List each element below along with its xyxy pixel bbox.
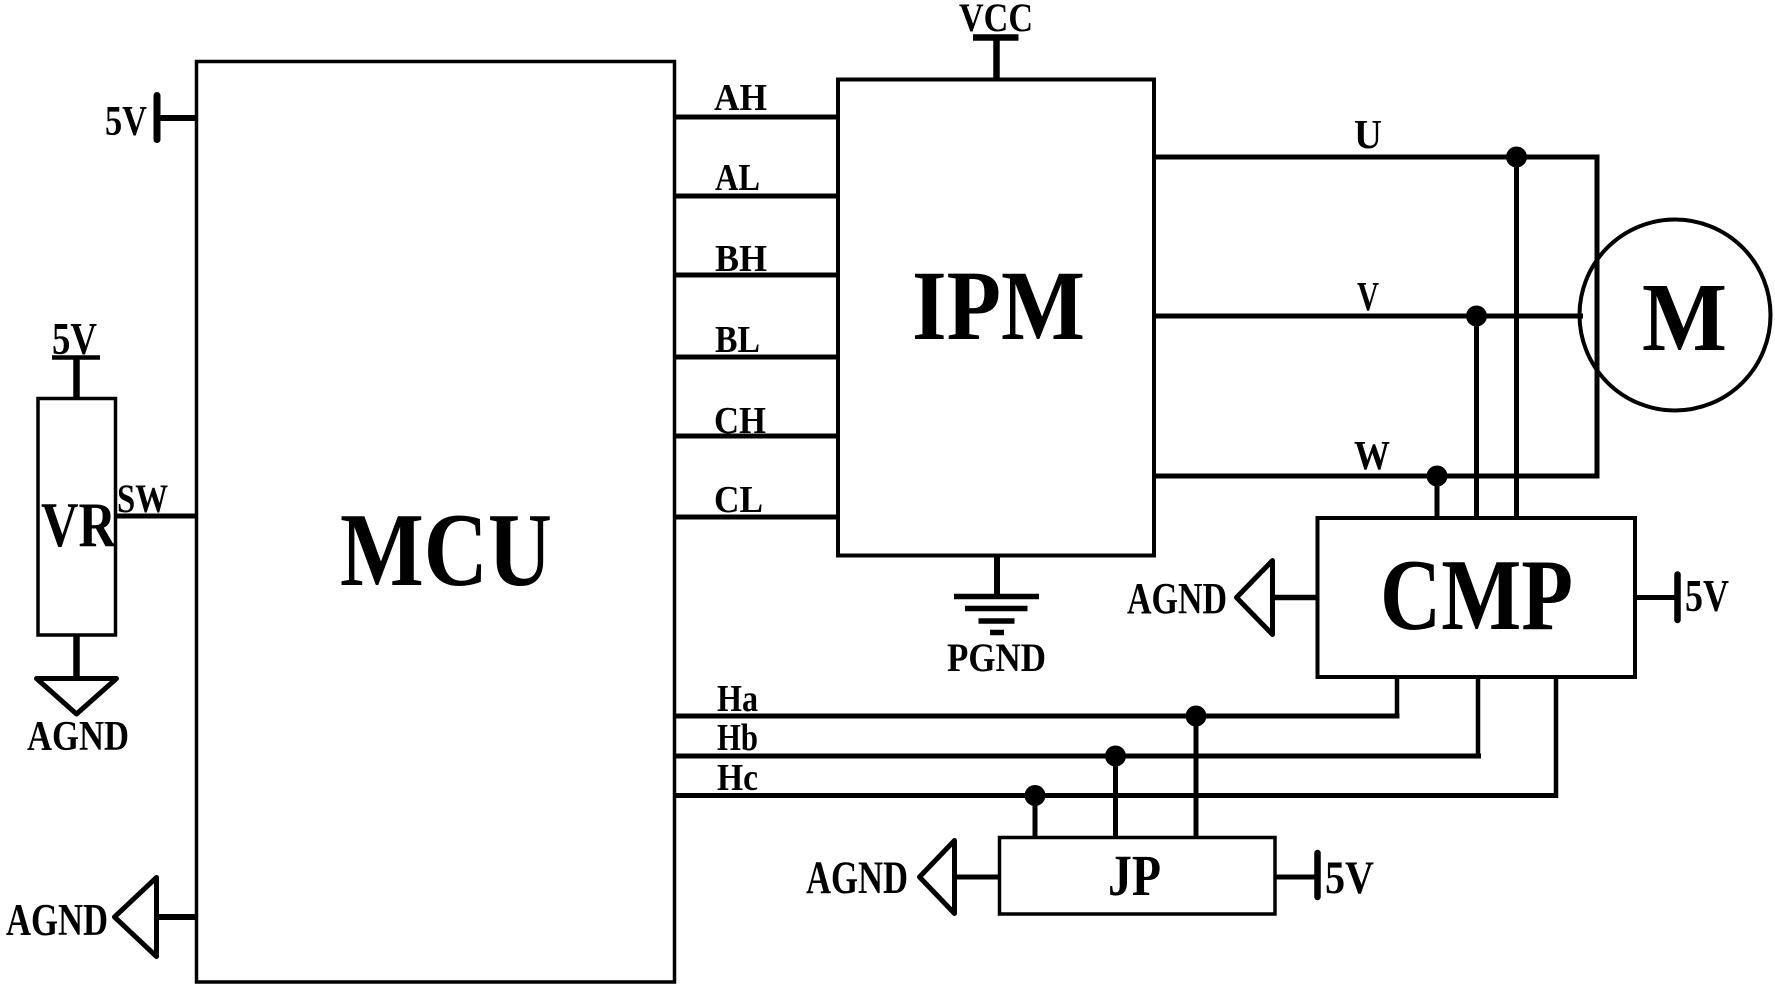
svg-text:CL: CL (714, 479, 763, 521)
svg-text:AGND: AGND (806, 852, 908, 904)
svg-text:BH: BH (715, 238, 767, 280)
svg-text:VCC: VCC (959, 0, 1033, 40)
svg-text:AH: AH (714, 77, 767, 119)
svg-text:JP: JP (1108, 843, 1161, 908)
svg-text:AL: AL (715, 157, 760, 199)
svg-text:5V: 5V (52, 313, 97, 364)
svg-text:CMP: CMP (1380, 539, 1573, 652)
svg-text:AGND: AGND (6, 895, 108, 945)
svg-text:CH: CH (714, 400, 766, 442)
svg-text:SW: SW (117, 476, 168, 521)
svg-text:PGND: PGND (947, 635, 1046, 680)
svg-text:MCU: MCU (340, 491, 552, 608)
svg-text:AGND: AGND (27, 714, 129, 760)
svg-text:IPM: IPM (912, 250, 1085, 361)
svg-text:5V: 5V (1325, 852, 1374, 904)
svg-text:Hc: Hc (717, 757, 758, 799)
svg-text:BL: BL (715, 319, 760, 361)
svg-text:5V: 5V (1685, 570, 1729, 621)
svg-text:U: U (1354, 111, 1382, 157)
svg-text:AGND: AGND (1127, 574, 1227, 623)
svg-text:W: W (1354, 432, 1390, 478)
svg-text:VR: VR (41, 489, 117, 560)
svg-text:M: M (1642, 264, 1727, 371)
svg-text:V: V (1357, 273, 1379, 319)
svg-text:5V: 5V (105, 99, 147, 145)
svg-text:Ha: Ha (717, 678, 758, 720)
svg-text:Hb: Hb (717, 717, 758, 759)
